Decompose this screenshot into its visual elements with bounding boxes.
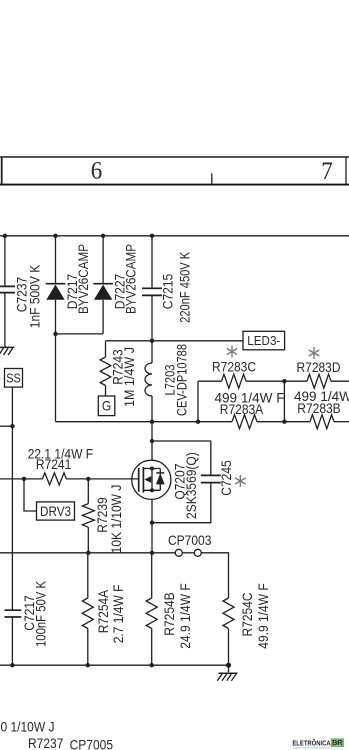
wire: gate row y479 bbox=[0, 478, 42, 480]
svg-text:0 1/10W J: 0 1/10W J bbox=[1, 718, 55, 734]
svg-text:BR: BR bbox=[332, 740, 342, 747]
connector CP7003 bbox=[175, 549, 228, 598]
diode D7227 bbox=[93, 236, 113, 334]
svg-text:2.7 1/4W F: 2.7 1/4W F bbox=[110, 585, 126, 644]
resistor R7254C bbox=[223, 598, 234, 672]
title band middle tick bbox=[211, 173, 213, 184]
svg-text:R7254B: R7254B bbox=[161, 592, 177, 635]
svg-text:R7241: R7241 bbox=[36, 456, 72, 472]
asterisk near LED3- bbox=[227, 346, 237, 358]
svg-text:R7283D: R7283D bbox=[297, 359, 341, 375]
svg-text:R7283C: R7283C bbox=[212, 358, 256, 374]
transistor Q7207 bbox=[132, 422, 171, 553]
wire: source row y553 bbox=[0, 552, 175, 554]
svg-text:10K 1/10W J: 10K 1/10W J bbox=[108, 485, 124, 554]
svg-text:CP7005: CP7005 bbox=[70, 737, 114, 750]
svg-text:24.9 1/4W F: 24.9 1/4W F bbox=[177, 583, 193, 648]
svg-text:R7283A: R7283A bbox=[220, 401, 264, 417]
node: DRV3 tap bbox=[22, 477, 26, 481]
svg-text:1nF 500V K: 1nF 500V K bbox=[26, 264, 42, 328]
svg-text:DRV3: DRV3 bbox=[40, 504, 71, 519]
svg-text:ELETRÔNICA: ELETRÔNICA bbox=[292, 738, 331, 747]
node: main line at lower rail bbox=[150, 420, 154, 424]
diode D7217 bbox=[46, 236, 66, 334]
node: network left rail bbox=[196, 420, 200, 424]
box LED3- bbox=[243, 331, 285, 350]
box DRV3 bbox=[37, 502, 75, 520]
svg-text:1M 1/4W J: 1M 1/4W J bbox=[121, 347, 137, 407]
title band right tick bbox=[345, 157, 347, 185]
resistor R7239 bbox=[82, 479, 94, 553]
svg-text:6: 6 bbox=[91, 157, 103, 184]
svg-text:C7215: C7215 bbox=[160, 274, 176, 310]
node: C7245 taps bbox=[150, 439, 154, 525]
resistor R7241 bbox=[42, 473, 66, 485]
capacitor C7217 bbox=[4, 610, 22, 617]
terminal box G bbox=[98, 396, 115, 416]
title band bottom rule bbox=[0, 184, 349, 186]
wire: lower rail y421 bbox=[56, 421, 233, 423]
wire: R7283 top row bbox=[198, 380, 222, 382]
terminal box SS bbox=[5, 369, 23, 388]
wire: stub to SS line bbox=[0, 425, 12, 427]
svg-text:49.9 1/4W F: 49.9 1/4W F bbox=[255, 583, 271, 648]
wire: network middle vertical bbox=[283, 381, 285, 422]
svg-text:R7254A: R7254A bbox=[95, 589, 111, 633]
watermark logo ELETRONICA BR bbox=[292, 738, 344, 748]
svg-text:BYV26CAMP: BYV26CAMP bbox=[123, 244, 139, 314]
wire: SS drop line bbox=[11, 387, 13, 665]
wire: top supply rail bbox=[0, 235, 349, 237]
node: L7203 top tap bbox=[150, 339, 154, 343]
title band left tick bbox=[1, 157, 3, 185]
resistor R7254B bbox=[146, 553, 157, 665]
svg-text:C7245: C7245 bbox=[218, 460, 234, 496]
svg-text:G: G bbox=[102, 399, 111, 414]
capacitor C7245 bbox=[152, 441, 221, 523]
node: source row junctions bbox=[86, 551, 154, 555]
capacitor C7215 bbox=[142, 236, 162, 341]
node: R7239 tap bbox=[86, 477, 90, 481]
wire: bottom ground rail bbox=[0, 664, 229, 666]
capacitor C7237 bbox=[0, 236, 15, 348]
svg-text:SS: SS bbox=[6, 370, 21, 385]
resistor R7243 bbox=[100, 341, 111, 396]
resistor R7283A bbox=[232, 415, 257, 429]
inductor L7203 bbox=[145, 341, 152, 422]
svg-text:CEV-DP10788: CEV-DP10788 bbox=[174, 344, 190, 416]
ground (chassis) under C7237 bbox=[0, 347, 14, 355]
asterisk near R7283D bbox=[309, 347, 319, 359]
wire: LED3 row bbox=[106, 340, 244, 342]
node: rail junctions bbox=[3, 234, 155, 238]
resistor R7283B bbox=[310, 415, 334, 429]
node: middle verticals bbox=[282, 379, 286, 424]
svg-text:BYV26CAMP: BYV26CAMP bbox=[75, 244, 91, 314]
resistor R7283C bbox=[222, 374, 247, 388]
node: SS stub junction bbox=[10, 424, 14, 428]
svg-text:2SK3569(Q): 2SK3569(Q) bbox=[183, 452, 199, 519]
node: ground rail junctions bbox=[10, 663, 231, 668]
title band top rule bbox=[0, 156, 349, 158]
svg-text:LED3-: LED3- bbox=[247, 333, 280, 348]
node: anode junction bbox=[53, 332, 57, 336]
svg-text:220nF 450V K: 220nF 450V K bbox=[176, 251, 192, 323]
svg-text:CP7003: CP7003 bbox=[168, 532, 212, 548]
resistor R7283D bbox=[307, 374, 331, 388]
resistor R7254A bbox=[82, 553, 93, 665]
svg-text:7: 7 bbox=[321, 158, 333, 185]
svg-text:R7283B: R7283B bbox=[297, 400, 340, 416]
asterisk near C7245 bbox=[235, 475, 245, 487]
svg-text:R7254C: R7254C bbox=[239, 593, 255, 637]
wire: diode anode bus bbox=[56, 333, 104, 335]
wire: network left vertical bbox=[197, 381, 199, 422]
wire: anode drop to lower rail bbox=[55, 334, 57, 422]
svg-text:R7237: R7237 bbox=[28, 735, 64, 750]
svg-text:100nF 50V K: 100nF 50V K bbox=[33, 580, 49, 647]
wire: DRV3 branch bbox=[24, 479, 37, 511]
ground (chassis) under R7254C bbox=[217, 673, 237, 680]
